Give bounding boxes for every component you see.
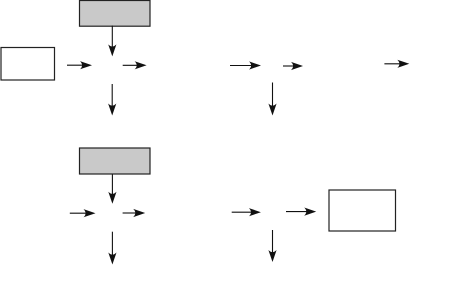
white box B2 (left box): [1, 48, 55, 81]
white box B4 (bottom-right box): [329, 190, 396, 231]
wire A3: arrow right out of node J1: [123, 61, 147, 69]
wire A8: lone arrow right (top-right): [384, 60, 409, 68]
wire A11: arrow right out of node J3: [123, 209, 146, 217]
wire A1: arrow down from box B1 into node J1: [108, 26, 116, 57]
wire A13: arrow right into node J4: [232, 208, 261, 216]
wire A4: arrow down out of node J1: [108, 84, 116, 116]
wire A5: arrow right into node J2: [230, 61, 261, 69]
wire A9: arrow down from box B3 into node J3: [108, 175, 116, 204]
gray box B3 (bottom-left feed box): [80, 148, 151, 174]
wire A15: arrow down out of node J4: [268, 230, 276, 262]
gray box B1 (top-left feed box): [80, 1, 151, 27]
wire A12: arrow down out of node J3: [108, 232, 116, 265]
wire A6: arrow right out of node J2: [283, 62, 303, 70]
wire A2: arrow right from box B2 into node J1: [67, 61, 92, 69]
wire A10: arrow right into node J3: [70, 209, 96, 217]
wire A14: arrow right from node J4 into box B4: [286, 208, 316, 216]
wire A7: arrow down out of node J2: [268, 83, 276, 116]
